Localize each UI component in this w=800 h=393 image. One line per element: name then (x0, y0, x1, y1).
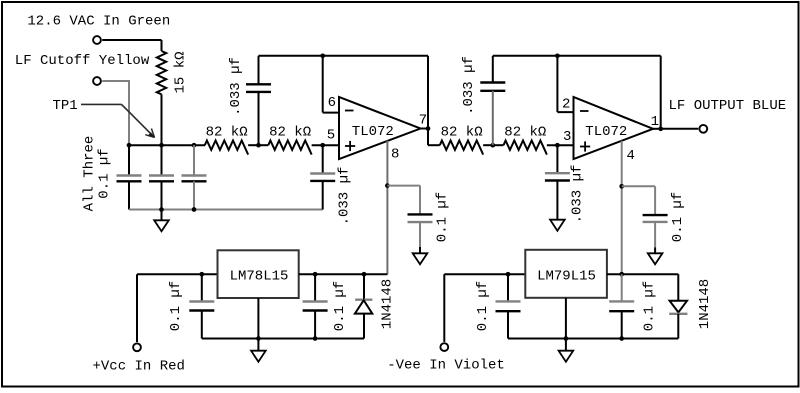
wire: U1 output down to stage2 (427, 129, 429, 146)
wire: 79L ground pin (565, 298, 567, 339)
resistor 82 kOhm (stage1 R2) (259, 144, 269, 146)
capacitor 0.1uf (78L input) (201, 274, 203, 301)
junction: 15k node (159, 143, 164, 148)
junction: U1 output node (426, 126, 431, 131)
svg-text:LF Cutoff Yellow: LF Cutoff Yellow (15, 53, 150, 69)
wire: U2 output to terminal (661, 128, 699, 130)
junction: LF cutoff node (127, 143, 132, 148)
svg-text:TL072: TL072 (352, 124, 394, 140)
resistor 82 kOhm (stage2 R2) (493, 144, 504, 146)
svg-text:12.6 VAC In Green: 12.6 VAC In Green (27, 14, 170, 30)
capacitor 0.1uf (79L output, inline pin4) (621, 274, 623, 301)
svg-text:82 kΩ: 82 kΩ (504, 125, 546, 141)
junction: 79L input cap (506, 272, 511, 277)
junction: 79L output at pin4 line (619, 272, 624, 277)
junction: 78L output cap (313, 272, 318, 277)
wire: branch to decoupling cap (622, 185, 655, 187)
diode 1N4148 (negative rail) (677, 274, 679, 301)
ground: stage2 pin3 cap (556, 219, 558, 221)
op-amp U2 TL072 stage2 (574, 97, 654, 159)
terminal: -Vee input (440, 343, 448, 351)
ground: pin8 decoupling (419, 247, 421, 253)
junction: R1 input node (192, 143, 197, 148)
junction: pin4 line at rail (619, 336, 624, 341)
svg-text:.033 µf: .033 µf (461, 56, 477, 115)
capacitor 0.1uf #2 (161, 145, 163, 175)
junction: stage1 mid node (256, 143, 261, 148)
svg-text:TL072: TL072 (585, 124, 627, 140)
junction: 78L gnd pin at rail (256, 336, 261, 341)
wire: U2 output (653, 128, 661, 130)
terminal: +Vcc input (133, 343, 141, 351)
svg-text:6: 6 (328, 95, 336, 111)
diode 1N4148 (positive rail) (363, 274, 365, 299)
svg-text:8: 8 (391, 147, 399, 163)
svg-text:1N4148: 1N4148 (380, 279, 396, 329)
junction: rail cap3 (192, 207, 197, 212)
wire: LF Cutoff to signal node (102, 80, 130, 82)
capacitor 0.1uf (pin4 decoupling) (654, 186, 656, 215)
wire: caps bottom rail (129, 209, 323, 211)
junction: 78L diode (362, 272, 367, 277)
wire: pin8 drop to +15V rail (386, 141, 388, 275)
junction: stage2 mid node (490, 143, 495, 148)
svg-text:0.1 µf: 0.1 µf (332, 281, 348, 331)
svg-text:0.1 µf: 0.1 µf (97, 148, 113, 198)
capacitor 0.1uf #1 (128, 145, 130, 175)
svg-text:+Vcc In Red: +Vcc In Red (93, 358, 185, 374)
svg-text:0.1 µf: 0.1 µf (642, 281, 658, 331)
wire: 78L ground pin (257, 298, 259, 339)
capacitor .033uf (stage2 feedback) (492, 56, 494, 83)
capacitor .033uf (stage1 pin5) (322, 145, 324, 173)
svg-text:0.1 µf: 0.1 µf (168, 281, 184, 331)
terminal: LF output (699, 125, 707, 133)
wire: branch to decoupling cap (387, 185, 420, 187)
junction: rail to pin6 (320, 53, 325, 58)
wire: stage-1 signal line (129, 144, 205, 146)
wire: stage1 feedback rail (259, 55, 429, 57)
svg-text:0.1 µf: 0.1 µf (670, 192, 686, 242)
wire: pin6 drop (322, 56, 324, 113)
U1 minus sign (345, 110, 354, 112)
junction: 78L output cap at rail (313, 336, 318, 341)
svg-text:All Three: All Three (82, 136, 98, 212)
wire: 79L output rail (607, 273, 678, 275)
resistor 82 kOhm (stage2 R1) (440, 141, 483, 155)
junction: 78L input cap (199, 272, 204, 277)
TP1 leader arrow (81, 103, 122, 105)
svg-text:.033 µf: .033 µf (570, 165, 586, 224)
wire: stage2 feedback rail (493, 55, 661, 57)
svg-text:0.1 µf: 0.1 µf (435, 192, 451, 242)
U2 minus sign (580, 110, 589, 112)
svg-text:-Vee In Violet: -Vee In Violet (387, 357, 505, 373)
svg-text:0.1 µf: 0.1 µf (475, 281, 491, 331)
junction: pin4 decoupling branch (619, 184, 624, 189)
wire: feedback down to output (427, 56, 429, 129)
ground: caps rail (161, 210, 163, 221)
junction: rail cap2 (159, 207, 164, 212)
svg-text:.033 µf: .033 µf (228, 57, 244, 116)
wire: 79L bottom rail (508, 338, 678, 340)
wire: U1 output (421, 128, 429, 130)
junction: 79L gnd pin at rail (564, 336, 569, 341)
capacitor 0.1uf (pin8 decoupling) (419, 186, 421, 215)
junction: stage2 pin3 node (555, 143, 560, 148)
svg-text:LM79L15: LM79L15 (537, 269, 596, 285)
svg-text:82 kΩ: 82 kΩ (441, 125, 483, 141)
regulator U3 LM78L15 (218, 250, 299, 298)
wire: 78L bottom rail (202, 338, 364, 340)
capacitor 0.1uf (79L input) (507, 274, 509, 301)
wire: -Vee terminal to regulator input (443, 274, 445, 342)
junction: rail to pin2 (555, 53, 560, 58)
op-amp U1 TL072 stage1 (339, 97, 421, 159)
svg-text:82 kΩ: 82 kΩ (206, 125, 248, 141)
svg-text:3: 3 (563, 129, 571, 145)
svg-text:.033 µf: .033 µf (337, 167, 353, 226)
junction: U2 output node (658, 126, 663, 131)
wire: pin2 drop (556, 56, 558, 112)
capacitor .033uf (stage2 pin3) (556, 145, 558, 173)
capacitor 0.1uf #3 (193, 145, 195, 175)
ground: 79L (565, 339, 567, 351)
svg-text:TP1: TP1 (53, 98, 78, 114)
resistor 82 kOhm (stage1 R1) (205, 141, 248, 155)
wire: 78L output rail (299, 273, 388, 275)
capacitor 0.1uf (78L output) (314, 274, 316, 301)
U2 plus sign (580, 146, 590, 148)
capacitor .033uf (stage1 feedback) (258, 56, 260, 85)
wire: stage2 feedback down to output (660, 56, 662, 129)
svg-text:15 kΩ: 15 kΩ (173, 51, 189, 93)
ground: 78L (257, 339, 259, 351)
svg-text:1N4148: 1N4148 (697, 279, 713, 329)
junction: pin8 decoupling branch (385, 183, 390, 188)
svg-text:LF OUTPUT BLUE: LF OUTPUT BLUE (669, 98, 787, 114)
wire: VAC terminal to 15k top (102, 39, 161, 41)
svg-text:4: 4 (627, 148, 635, 164)
svg-text:2: 2 (562, 97, 570, 113)
resistor 15 kOhm (161, 40, 163, 51)
svg-text:7: 7 (419, 113, 427, 129)
svg-text:LM78L15: LM78L15 (230, 269, 289, 285)
svg-text:1: 1 (651, 114, 659, 130)
terminal: 12.6 VAC input (93, 36, 101, 44)
regulator U4 LM79L15 (525, 250, 607, 298)
wire: pin4 drop to -15V rail (621, 141, 623, 275)
wire: +Vcc terminal to regulator input (136, 274, 138, 342)
junction: stage1 pin5 node (320, 143, 325, 148)
svg-text:82 kΩ: 82 kΩ (269, 125, 311, 141)
U1 plus sign (345, 145, 355, 147)
terminal: LF Cutoff (93, 77, 101, 85)
ground: pin4 decoupling (654, 248, 656, 254)
svg-text:5: 5 (327, 127, 335, 143)
